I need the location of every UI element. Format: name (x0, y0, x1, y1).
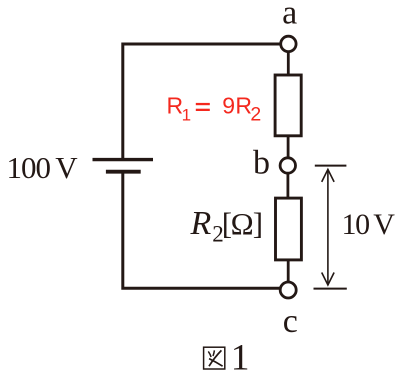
svg-text:a: a (282, 0, 297, 32)
label R2 [ohm] (190, 205, 264, 247)
wire top: node a to top-left corner and down to battery + plate (123, 44, 280, 159)
node c terminal circle (280, 282, 296, 298)
wire resistor R1 to node b (287, 135, 290, 159)
battery V1 long plate (+) (93, 158, 154, 161)
svg-text:9: 9 (222, 93, 235, 119)
node a terminal circle (281, 36, 296, 51)
double-headed arrow for 10 V span (322, 169, 334, 285)
svg-text:2: 2 (250, 104, 261, 126)
voltage marker top tick (at node b level) (315, 165, 347, 167)
voltage marker bottom tick (at node c level) (314, 288, 347, 290)
svg-text:1: 1 (231, 338, 250, 379)
resistor R2 body (276, 198, 302, 260)
node b terminal circle (280, 158, 295, 173)
svg-text:Ω: Ω (231, 206, 254, 241)
svg-text:c: c (283, 303, 298, 340)
svg-text:R: R (190, 205, 212, 242)
label R1 = 9R2 (red) (167, 93, 262, 126)
svg-text:b: b (253, 145, 270, 182)
wire bottom: battery - plate down, across to node c (123, 171, 280, 288)
wire resistor R2 to node c (287, 259, 290, 283)
figure caption box of KANJI zu (figure) (204, 347, 225, 369)
wire node b to resistor R2 (286, 173, 289, 199)
svg-text:100 V: 100 V (7, 150, 79, 185)
svg-text:]: ] (253, 206, 263, 241)
resistor R1 body (275, 75, 301, 136)
svg-text:10 V: 10 V (342, 208, 396, 241)
svg-text:1: 1 (182, 106, 191, 125)
battery V1 short plate (-) (106, 170, 141, 174)
wire node a to resistor R1 (287, 52, 290, 77)
